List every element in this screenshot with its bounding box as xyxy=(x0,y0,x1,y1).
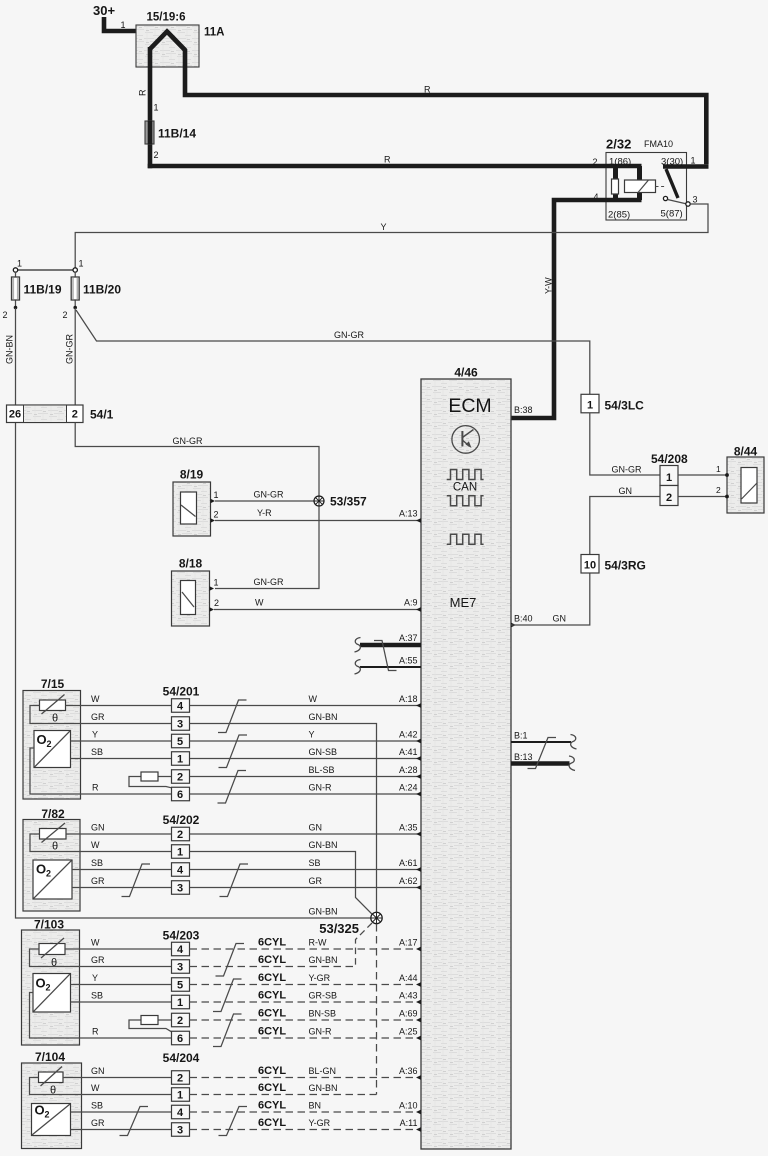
svg-text:1: 1 xyxy=(79,259,84,269)
fuse 11B/20 top terminal xyxy=(73,268,77,272)
connector 54/3RG xyxy=(581,555,599,574)
svg-text:6CYL: 6CYL xyxy=(258,990,286,1002)
wire SB 7/104 to 54/204 pin 4 xyxy=(71,1111,172,1113)
svg-text:Y: Y xyxy=(92,973,98,983)
wire GN 7/104 to 54/204 pin 2 xyxy=(63,1077,172,1079)
svg-text:A:11: A:11 xyxy=(400,1118,418,1128)
svg-text:6CYL: 6CYL xyxy=(258,1082,286,1094)
svg-text:1: 1 xyxy=(716,464,721,474)
svg-text:1: 1 xyxy=(214,578,219,588)
svg-text:GN: GN xyxy=(91,823,105,833)
wire 54/208 pin 1 to 8/44 xyxy=(678,474,727,476)
fuse 11B/19 top terminal xyxy=(13,268,17,272)
wire SB 7/15 to 54/201 pin 1 xyxy=(71,758,172,760)
svg-text:1: 1 xyxy=(121,20,126,30)
wire GR from 54/202 pin 3 to ECM A:62 xyxy=(190,887,422,889)
ignition switch contacts (inverted V) xyxy=(150,32,185,51)
svg-text:3: 3 xyxy=(177,719,183,731)
ECM CAN square wave lower xyxy=(447,496,484,506)
svg-text:ME7: ME7 xyxy=(450,595,477,610)
svg-text:A:41: A:41 xyxy=(399,747,418,757)
svg-text:2: 2 xyxy=(177,1015,183,1027)
wire Y-W from relay 2(85) to ECM B:38 xyxy=(511,200,642,418)
svg-text:A:61: A:61 xyxy=(399,858,418,868)
dashed wire BN-SB 6CYL from 54/203 pin 2 to ECM A:69 xyxy=(190,1019,422,1021)
svg-text:8/44: 8/44 xyxy=(734,445,758,459)
splice 53/325 xyxy=(371,912,382,923)
svg-text:Y-R: Y-R xyxy=(257,508,272,518)
wire GN-GR from 54/1 pin 2 to splice 53/357 and relay 8/18 xyxy=(75,423,319,496)
wire GN-BN from 54/201 pin 3 to splice 53/325 xyxy=(190,724,377,913)
svg-text:GN-GR: GN-GR xyxy=(254,577,284,587)
svg-text:54/3RG: 54/3RG xyxy=(605,559,646,573)
dashed wire GN-BN 6CYL from 54/203 pin 3 to splice xyxy=(190,966,356,968)
ECM CAN square wave upper xyxy=(447,470,484,480)
svg-text:3: 3 xyxy=(177,962,183,974)
svg-text:R-W: R-W xyxy=(309,938,327,948)
break marks 54/202 xyxy=(122,864,151,897)
wire R from fuse 11B/14 to relay 2/32 pin 1(86) xyxy=(148,164,642,169)
svg-text:7/82: 7/82 xyxy=(41,807,65,821)
svg-text:30+: 30+ xyxy=(93,3,115,18)
svg-text:A:42: A:42 xyxy=(399,730,418,740)
dashed wire bus from splice 53/325 down to 54/204 pin 1 (6CYL) xyxy=(376,924,378,1095)
relay 8/18 box xyxy=(172,571,210,626)
relay contact pivot circle xyxy=(663,196,667,200)
svg-text:A:35: A:35 xyxy=(399,823,418,833)
svg-text:W: W xyxy=(91,840,100,850)
svg-text:2: 2 xyxy=(45,1110,50,1120)
svg-text:6CYL: 6CYL xyxy=(258,1065,286,1077)
7/15 heater thermistor xyxy=(40,700,66,711)
break mark across B:1/B:13 xyxy=(528,738,557,769)
svg-text:1: 1 xyxy=(177,997,183,1009)
dashed wire BN 6CYL from 54/204 pin 4 to ECM A:10 xyxy=(190,1111,422,1113)
wire W 7/104 to 54/204 pin 1 xyxy=(30,1078,172,1095)
relay switch blade xyxy=(666,169,678,198)
svg-text:GR: GR xyxy=(91,712,105,722)
connector 54/3LC xyxy=(581,394,599,413)
svg-text:1: 1 xyxy=(691,156,696,166)
resistor loop on 54/203 pin 2 xyxy=(158,1019,172,1021)
svg-text:6CYL: 6CYL xyxy=(258,937,286,949)
wire GN-R from 54/201 pin 6 to ECM A:24 xyxy=(190,793,422,795)
wire Y from 54/201 pin 5 to ECM A:42 xyxy=(190,740,422,742)
wire W from 8/18 pin 2 to ECM A:9 xyxy=(214,609,421,611)
resistor loop on 54/201 pin 2 xyxy=(158,776,172,778)
wire W from 54/201 pin 4 to ECM A:18 xyxy=(190,705,422,707)
oxygen sensor 7/103 box xyxy=(22,930,80,1045)
wire switch left leg down to fuse 11B/14 xyxy=(148,47,153,122)
svg-text:6CYL: 6CYL xyxy=(258,1008,286,1020)
svg-text:A:44: A:44 xyxy=(399,973,418,983)
svg-text:11B/20: 11B/20 xyxy=(83,283,121,297)
solenoid 8/44 box xyxy=(727,457,764,513)
svg-text:B:40: B:40 xyxy=(514,614,533,624)
svg-text:1: 1 xyxy=(177,847,183,859)
svg-text:W: W xyxy=(91,938,100,948)
svg-text:6: 6 xyxy=(177,789,183,801)
7/103 O2 cell xyxy=(33,974,71,1013)
relay coil to contact dashed link xyxy=(656,186,667,188)
7/82 O2 cell xyxy=(33,860,72,899)
svg-text:2: 2 xyxy=(214,598,219,608)
svg-text:53/325: 53/325 xyxy=(319,921,359,936)
svg-text:3: 3 xyxy=(693,195,698,205)
svg-text:A:13: A:13 xyxy=(399,509,418,519)
ECM pin A:37 shielded stub xyxy=(360,643,421,648)
svg-text:3: 3 xyxy=(177,883,183,895)
svg-text:4: 4 xyxy=(177,1107,184,1119)
connector 54/208 xyxy=(660,466,678,486)
svg-text:R: R xyxy=(92,783,99,793)
svg-text:2: 2 xyxy=(62,310,67,320)
break marks 54/203 xyxy=(216,944,245,977)
svg-text:15/19:6: 15/19:6 xyxy=(146,12,185,24)
svg-text:2: 2 xyxy=(2,310,7,320)
dashed wire BL-GN 6CYL from 54/204 pin 2 to ECM A:36 xyxy=(190,1077,422,1079)
svg-text:R: R xyxy=(92,1027,99,1037)
svg-text:Y: Y xyxy=(309,730,315,740)
svg-text:GR: GR xyxy=(91,876,105,886)
svg-text:A:18: A:18 xyxy=(399,694,418,704)
wire SB 7/82 to 54/202 pin 4 xyxy=(72,869,172,871)
wire GR 7/15 to 54/201 pin 3 xyxy=(30,706,172,724)
svg-text:5(87): 5(87) xyxy=(661,209,683,220)
svg-text:5: 5 xyxy=(177,736,183,748)
wire GN-GR from 8/19 pin 1 to splice 53/357 xyxy=(215,500,314,502)
dashed wire Y-GR 6CYL from 54/203 pin 5 to ECM A:44 xyxy=(190,984,422,986)
7/15 O2 cell xyxy=(34,731,71,768)
svg-text:GN-GR: GN-GR xyxy=(612,465,642,475)
ECM pin B:1 stub xyxy=(511,741,571,743)
wire GR 7/104 to 54/204 pin 3 xyxy=(71,1129,172,1131)
wire GN-GR from fuse 11B/20 down through 54/1 xyxy=(74,308,76,405)
svg-text:A:17: A:17 xyxy=(399,938,418,948)
svg-text:54/3LC: 54/3LC xyxy=(605,399,645,413)
svg-text:1: 1 xyxy=(214,490,219,500)
svg-text:A:28: A:28 xyxy=(399,765,418,775)
dashed wire R-W 6CYL from 54/203 pin 4 to ECM A:17 xyxy=(190,948,422,950)
oxygen sensor 7/82 box xyxy=(23,820,80,912)
svg-text:Y: Y xyxy=(92,730,98,740)
wire BL-SB from 54/201 pin 2 to ECM A:28 xyxy=(190,776,422,778)
svg-text:2: 2 xyxy=(214,510,219,520)
wire through fuse xyxy=(148,122,153,168)
svg-text:A:10: A:10 xyxy=(399,1101,418,1111)
svg-text:A:37: A:37 xyxy=(399,633,418,643)
svg-text:3: 3 xyxy=(177,1125,183,1137)
oxygen sensor 7/15 box xyxy=(23,691,81,800)
wire GR 7/82 to 54/202 pin 3 xyxy=(72,887,172,889)
wire W 7/103 to 54/203 pin 4 xyxy=(65,948,172,950)
svg-text:GN-R: GN-R xyxy=(309,1027,332,1037)
wire GN-GR from 54/3LC to 54/208 pin 1 xyxy=(590,413,660,475)
svg-text:2: 2 xyxy=(177,772,183,784)
ignition switch 15/19:6 box xyxy=(136,25,199,67)
wire SB from 54/202 pin 4 to ECM A:61 xyxy=(190,869,422,871)
svg-text:SB: SB xyxy=(91,747,103,757)
svg-text:Y: Y xyxy=(381,222,387,232)
svg-text:Y-W: Y-W xyxy=(544,277,554,294)
dashed wire GN-R 6CYL from 54/203 pin 6 to ECM A:25 xyxy=(190,1037,422,1039)
svg-text:7/15: 7/15 xyxy=(41,677,65,691)
svg-text:54/204: 54/204 xyxy=(163,1051,200,1065)
svg-text:7/103: 7/103 xyxy=(34,918,64,932)
svg-text:FMA10: FMA10 xyxy=(644,139,673,149)
svg-text:3(30): 3(30) xyxy=(661,157,683,168)
svg-text:4: 4 xyxy=(177,944,184,956)
svg-text:2: 2 xyxy=(177,1073,183,1085)
svg-text:8/19: 8/19 xyxy=(180,468,204,482)
svg-text:2: 2 xyxy=(72,409,78,421)
dashed wire Y-GR 6CYL from 54/204 pin 3 to ECM A:11 xyxy=(190,1129,422,1131)
svg-text:GN-BN: GN-BN xyxy=(309,907,338,917)
svg-text:ECM: ECM xyxy=(448,395,491,417)
svg-text:8/18: 8/18 xyxy=(179,557,203,571)
svg-text:R: R xyxy=(424,85,431,95)
wire GN-BN from fuse 11B/19 down to splice 53/325 xyxy=(16,308,371,918)
svg-text:W: W xyxy=(309,694,318,704)
fuse 11B/20 xyxy=(74,272,76,308)
relay coil body xyxy=(625,180,656,193)
svg-text:GN-BN: GN-BN xyxy=(309,1083,338,1093)
break marks 54/204 xyxy=(120,1107,149,1136)
svg-text:11A: 11A xyxy=(204,27,224,39)
svg-text:θ: θ xyxy=(52,841,58,853)
svg-text:A:55: A:55 xyxy=(399,656,418,666)
svg-text:A:9: A:9 xyxy=(404,598,418,608)
svg-text:GR-SB: GR-SB xyxy=(309,991,338,1001)
svg-text:GN-SB: GN-SB xyxy=(309,747,338,757)
svg-text:11B/14: 11B/14 xyxy=(158,127,196,141)
svg-text:GN-GR: GN-GR xyxy=(334,330,364,340)
pin 2 of 8/19 xyxy=(211,518,216,523)
svg-text:GN-R: GN-R xyxy=(309,783,332,793)
svg-text:6CYL: 6CYL xyxy=(258,1117,286,1129)
svg-text:54/201: 54/201 xyxy=(163,685,200,699)
wire GN-SB from 54/201 pin 1 to ECM A:41 xyxy=(190,758,422,760)
wire W 7/15 to 54/201 pin 4 xyxy=(66,705,172,707)
svg-text:GN: GN xyxy=(553,614,567,624)
svg-text:GN-BN: GN-BN xyxy=(309,955,338,965)
svg-text:7/104: 7/104 xyxy=(35,1050,65,1064)
svg-text:2(85): 2(85) xyxy=(608,210,630,221)
ECM pin B:13 stub xyxy=(511,761,570,766)
wire 54/208 pin 2 to 8/44 xyxy=(678,496,727,498)
svg-text:GN-GR: GN-GR xyxy=(173,436,203,446)
svg-text:1: 1 xyxy=(17,259,22,269)
break marks 54/201 xyxy=(218,700,247,733)
shield mark across A:37/A:55 xyxy=(374,641,397,671)
wire GN 7/82 to 54/202 pin 2 xyxy=(66,833,172,835)
wire R from ignition switch to relay 2/32 pin 3(30) xyxy=(167,32,706,165)
7/103 heater thermistor xyxy=(39,944,65,955)
svg-text:10: 10 xyxy=(584,560,596,572)
svg-text:1(86): 1(86) xyxy=(609,157,631,168)
relay 2/32 box xyxy=(606,153,687,221)
svg-text:1: 1 xyxy=(154,103,159,113)
svg-text:1: 1 xyxy=(666,472,672,484)
svg-text:GN-BN: GN-BN xyxy=(5,335,15,364)
fuse 11B/14 xyxy=(145,121,154,144)
wire W 7/82 to 54/202 pin 1 xyxy=(30,834,172,852)
7/104 heater thermistor xyxy=(39,1072,64,1083)
wire R 7/15 to 54/201 pin 6 xyxy=(30,748,172,794)
wire connecting fuse tops xyxy=(16,269,76,271)
dashed wire from splice 53/325 to 54/203 pin 3 (6CYL) xyxy=(356,923,373,967)
svg-text:GR: GR xyxy=(91,1118,105,1128)
svg-text:Y-GR: Y-GR xyxy=(309,973,331,983)
relay pin 5(87) terminal circle xyxy=(686,202,690,206)
svg-text:R: R xyxy=(138,89,148,96)
wire Y 7/103 to 54/203 pin 5 xyxy=(71,984,172,986)
svg-text:2: 2 xyxy=(46,983,51,993)
ECM pin A:9 xyxy=(416,607,421,612)
ECM pin A:13 xyxy=(416,518,421,523)
dashed wire GR-SB 6CYL from 54/203 pin 1 to ECM A:43 xyxy=(190,1001,422,1003)
svg-text:GN-GR: GN-GR xyxy=(254,490,284,500)
svg-text:R: R xyxy=(384,155,391,165)
wire GN-GR branch from fuse 11B/20 to connector 54/3LC and 54/208 xyxy=(76,310,590,394)
svg-text:BL-SB: BL-SB xyxy=(309,765,335,775)
dashed wire GN-BN 6CYL from 54/204 pin 1 to splice bus xyxy=(190,1094,377,1096)
svg-text:SB: SB xyxy=(91,991,103,1001)
svg-text:GN: GN xyxy=(309,823,323,833)
svg-text:2: 2 xyxy=(716,485,721,495)
svg-text:W: W xyxy=(255,598,264,608)
svg-text:BN: BN xyxy=(309,1101,322,1111)
wire GN-BN from 54/202 pin 1 to splice 53/325 xyxy=(190,852,373,915)
svg-text:θ: θ xyxy=(51,957,57,969)
wire SB 7/103 to 54/203 pin 1 xyxy=(71,1001,172,1003)
wire Y 7/15 to 54/201 pin 5 xyxy=(71,740,172,742)
svg-text:53/357: 53/357 xyxy=(330,495,367,509)
svg-text:2: 2 xyxy=(47,739,52,749)
svg-text:6CYL: 6CYL xyxy=(258,1026,286,1038)
svg-text:4/46: 4/46 xyxy=(454,366,478,380)
svg-text:2: 2 xyxy=(154,150,159,160)
wire GR 7/103 to 54/203 pin 3 xyxy=(30,949,172,967)
svg-text:B:38: B:38 xyxy=(514,405,533,415)
relay contact to pin 5(87) link xyxy=(668,200,688,205)
svg-text:GN-BN: GN-BN xyxy=(309,712,338,722)
svg-text:A:69: A:69 xyxy=(399,1009,418,1019)
fuse 11B/19 xyxy=(15,272,17,308)
wire R 7/103 to 54/203 pin 6 xyxy=(30,993,172,1039)
7/104 O2 cell xyxy=(32,1104,71,1136)
ECM 4/46 control unit box xyxy=(421,379,511,1149)
svg-text:Y-GR: Y-GR xyxy=(309,1118,331,1128)
7/82 heater thermistor xyxy=(40,829,67,840)
svg-text:5: 5 xyxy=(177,980,183,992)
svg-text:GN-BN: GN-BN xyxy=(309,840,338,850)
svg-text:11B/19: 11B/19 xyxy=(24,283,62,297)
svg-text:54/202: 54/202 xyxy=(163,813,200,827)
svg-text:SB: SB xyxy=(91,858,103,868)
wire 30+ feed into ignition switch xyxy=(104,17,167,31)
relay coil right leg xyxy=(637,166,642,200)
svg-text:2: 2 xyxy=(666,492,672,504)
pin 1 of 8/18 xyxy=(210,586,215,591)
svg-text:A:36: A:36 xyxy=(399,1066,418,1076)
svg-text:B:13: B:13 xyxy=(514,752,533,762)
ECM square wave symbol xyxy=(447,534,484,544)
relay coil terminal rect xyxy=(612,179,619,194)
svg-text:6CYL: 6CYL xyxy=(258,972,286,984)
svg-text:6CYL: 6CYL xyxy=(258,954,286,966)
wire GN from 54/202 pin 2 to ECM A:35 xyxy=(190,833,422,835)
connector 54/1 xyxy=(7,405,84,423)
svg-text:BN-SB: BN-SB xyxy=(309,1009,337,1019)
svg-text:26: 26 xyxy=(9,409,21,421)
splice 53/357 xyxy=(314,496,324,506)
relay 8/19 box xyxy=(173,482,211,536)
svg-text:W: W xyxy=(91,1083,100,1093)
svg-text:4: 4 xyxy=(177,865,184,877)
svg-text:SB: SB xyxy=(309,858,321,868)
svg-text:6: 6 xyxy=(177,1033,183,1045)
svg-text:W: W xyxy=(91,694,100,704)
svg-text:CAN: CAN xyxy=(453,482,477,494)
svg-text:2: 2 xyxy=(177,829,183,841)
svg-text:GN: GN xyxy=(619,486,633,496)
svg-text:SB: SB xyxy=(91,1101,103,1111)
svg-text:GN-GR: GN-GR xyxy=(65,334,75,364)
svg-text:54/208: 54/208 xyxy=(651,452,688,466)
wire Y-R from 8/19 pin 2 to ECM A:13 xyxy=(215,520,421,522)
svg-text:54/1: 54/1 xyxy=(90,408,114,422)
svg-text:GR: GR xyxy=(91,955,105,965)
wire Y from relay 5(87) to fuses 11B/19 and 11B/20 xyxy=(75,204,708,268)
svg-text:1: 1 xyxy=(177,754,183,766)
ECM pin A:55 shielded stub xyxy=(360,666,421,668)
svg-text:A:25: A:25 xyxy=(399,1027,418,1037)
pin 1 of 8/19 xyxy=(211,499,216,504)
svg-text:O: O xyxy=(37,732,47,747)
oxygen sensor 7/104 box xyxy=(22,1063,82,1149)
ECM transistor icon xyxy=(452,426,480,454)
svg-text:54/203: 54/203 xyxy=(163,929,200,943)
svg-text:1: 1 xyxy=(587,400,593,412)
svg-text:GN: GN xyxy=(91,1066,105,1076)
junction dots at 8/44 pins xyxy=(725,473,729,477)
pin 2 of 8/18 xyxy=(210,607,215,612)
svg-text:2/32: 2/32 xyxy=(606,137,631,152)
svg-text:4: 4 xyxy=(177,701,184,713)
svg-text:O: O xyxy=(36,862,46,877)
svg-text:BL-GN: BL-GN xyxy=(309,1066,337,1076)
relay coil left leg xyxy=(613,166,618,200)
svg-text:2: 2 xyxy=(592,157,597,167)
svg-text:6CYL: 6CYL xyxy=(258,1100,286,1112)
svg-text:B:1: B:1 xyxy=(514,731,528,741)
svg-text:1: 1 xyxy=(177,1090,183,1102)
svg-text:O: O xyxy=(36,976,46,991)
svg-text:A:24: A:24 xyxy=(399,783,418,793)
svg-text:A:43: A:43 xyxy=(399,991,418,1001)
svg-text:θ: θ xyxy=(52,713,58,725)
svg-text:GR: GR xyxy=(309,876,323,886)
svg-text:O: O xyxy=(35,1103,45,1118)
svg-text:2: 2 xyxy=(46,869,51,879)
svg-text:A:62: A:62 xyxy=(399,876,418,886)
